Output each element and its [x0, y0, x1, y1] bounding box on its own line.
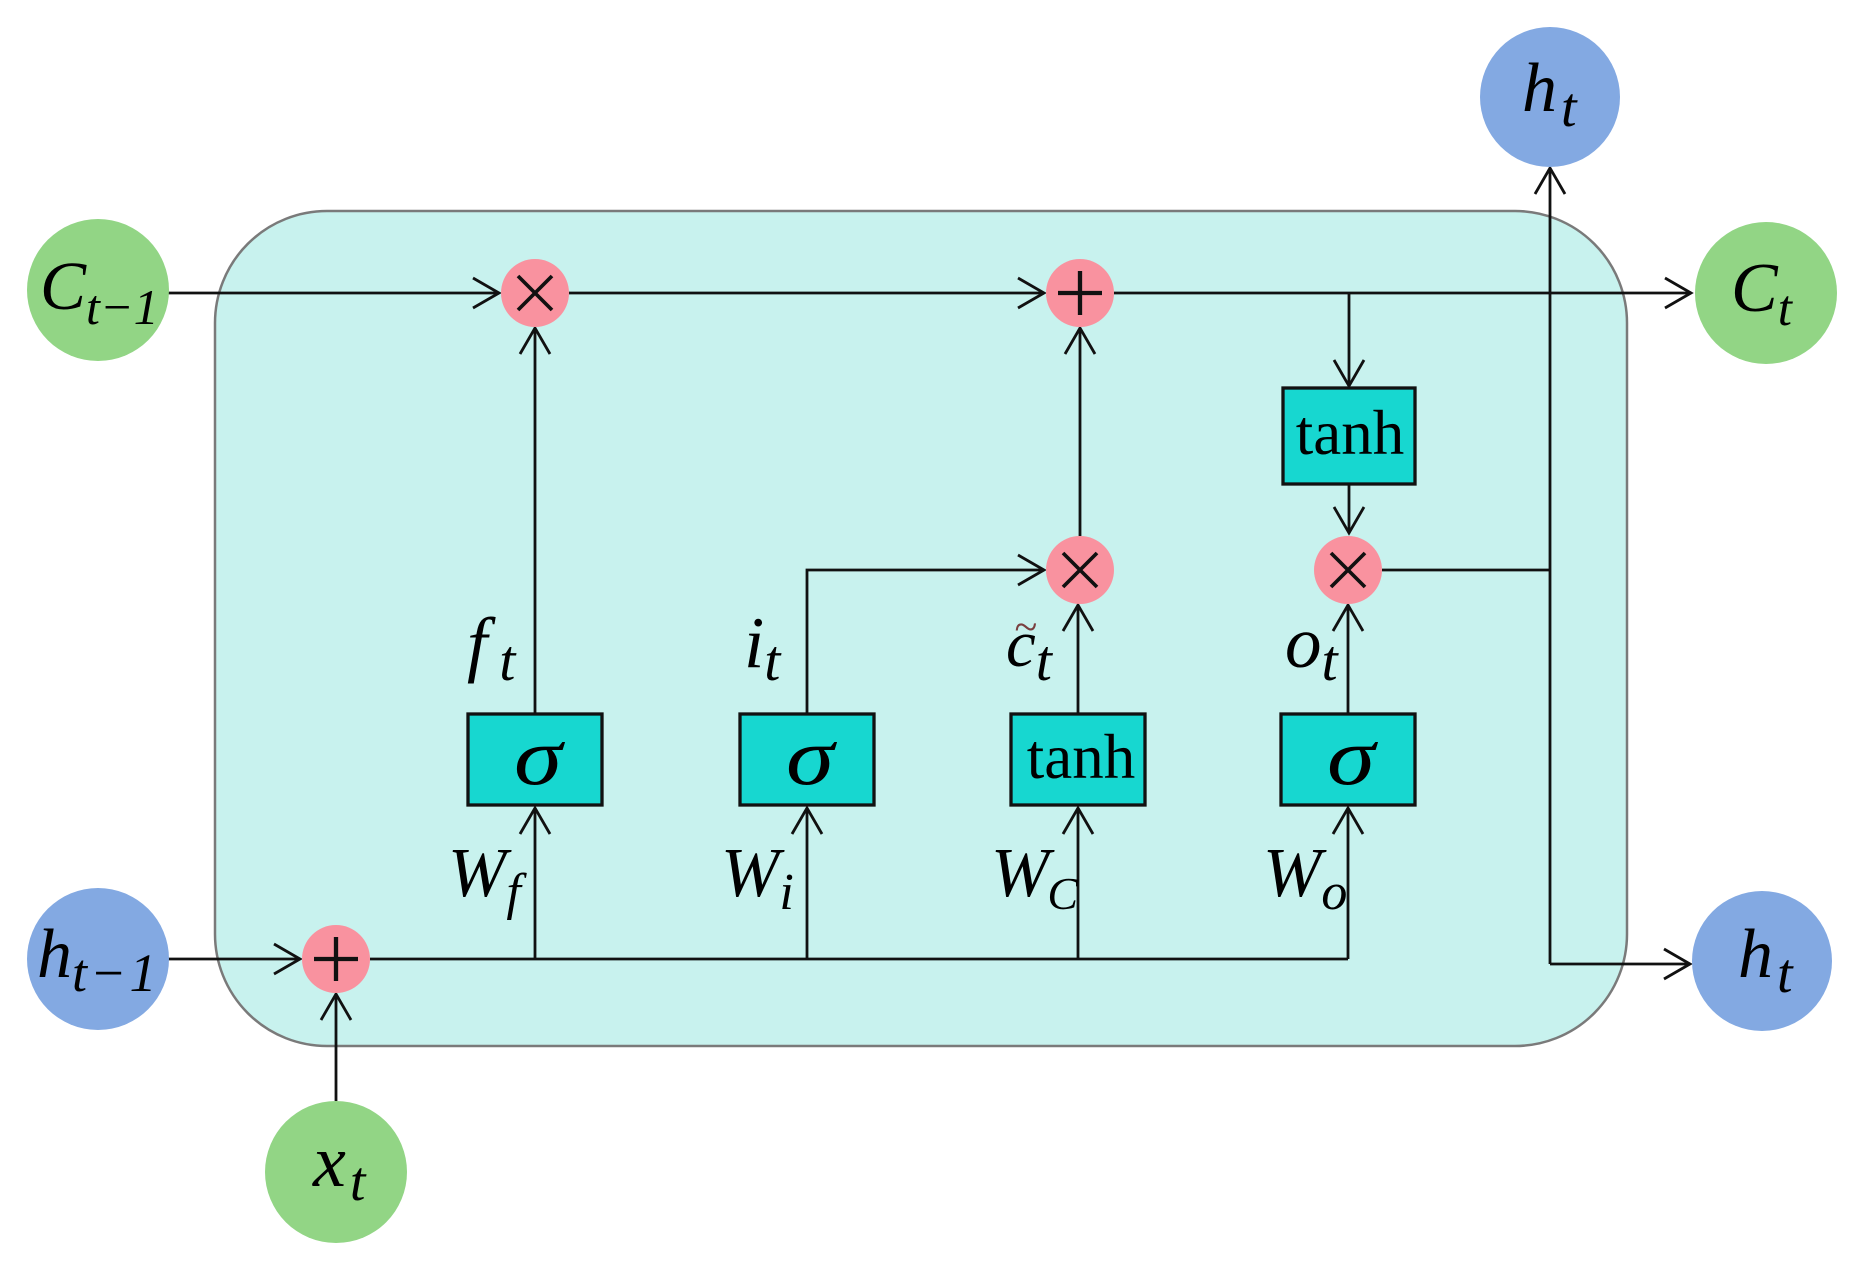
wire W_i up to sigma2: [792, 808, 822, 959]
wire sigma1 up to M1 (f_t): [520, 328, 550, 714]
wire M2 up to A1: [1065, 328, 1095, 536]
wire junction to top tanh: [1334, 293, 1364, 386]
gate tanh top: [1283, 388, 1415, 484]
op multiply M3: [1314, 536, 1382, 604]
op multiply M1: [501, 259, 569, 327]
wire A1 to C_t: [1114, 278, 1691, 308]
wire h_{t-1} to add A2: [167, 944, 300, 974]
node h_t bottom: [1692, 891, 1832, 1031]
gate sigma3: [1281, 711, 1415, 805]
node C_{t-1}: [27, 219, 169, 361]
wire A2 right along h line: [370, 958, 1348, 961]
wire W_f up to sigma1: [520, 808, 550, 959]
op multiply M2: [1046, 536, 1114, 604]
node h_t top: [1480, 27, 1620, 167]
svg-text:σ: σ: [514, 711, 566, 802]
node h_{t-1}: [27, 888, 169, 1030]
wire h bus right to h_t bottom: [1550, 949, 1690, 979]
wire tanh bottom up to M2 (c~_t): [1063, 605, 1093, 714]
svg-text:σ: σ: [1327, 711, 1379, 802]
node C_t: [1695, 222, 1837, 364]
wire M1 to add A1: [569, 278, 1044, 308]
svg-text:tanh: tanh: [1296, 398, 1404, 468]
gate sigma2: [740, 711, 874, 805]
svg-text:tanh: tanh: [1027, 722, 1135, 792]
wire h bus vertical up to h_t top: [1535, 168, 1565, 964]
wire M3 right to h bus: [1382, 569, 1551, 572]
gate tanh bottom: [1011, 714, 1145, 805]
wire W_o up to sigma3: [1333, 808, 1363, 959]
wire sigma3 up to M3 (o_t): [1333, 605, 1363, 714]
wire W_C up to tanh bottom: [1063, 808, 1093, 959]
op add A2: [302, 925, 370, 993]
op add A1: [1046, 259, 1114, 327]
gate sigma1: [468, 711, 602, 805]
svg-text:~: ~: [1014, 605, 1037, 651]
wire x_t up to add A2: [321, 994, 351, 1101]
LSTM cell body: [215, 211, 1627, 1046]
wire C_{t-1} to multiply M1: [166, 278, 499, 308]
wire top tanh to multiply M3: [1334, 484, 1364, 533]
wire sigma2 up and right to M2 (i_t): [807, 555, 1044, 714]
node x_t: [265, 1101, 407, 1243]
svg-text:σ: σ: [786, 711, 838, 802]
